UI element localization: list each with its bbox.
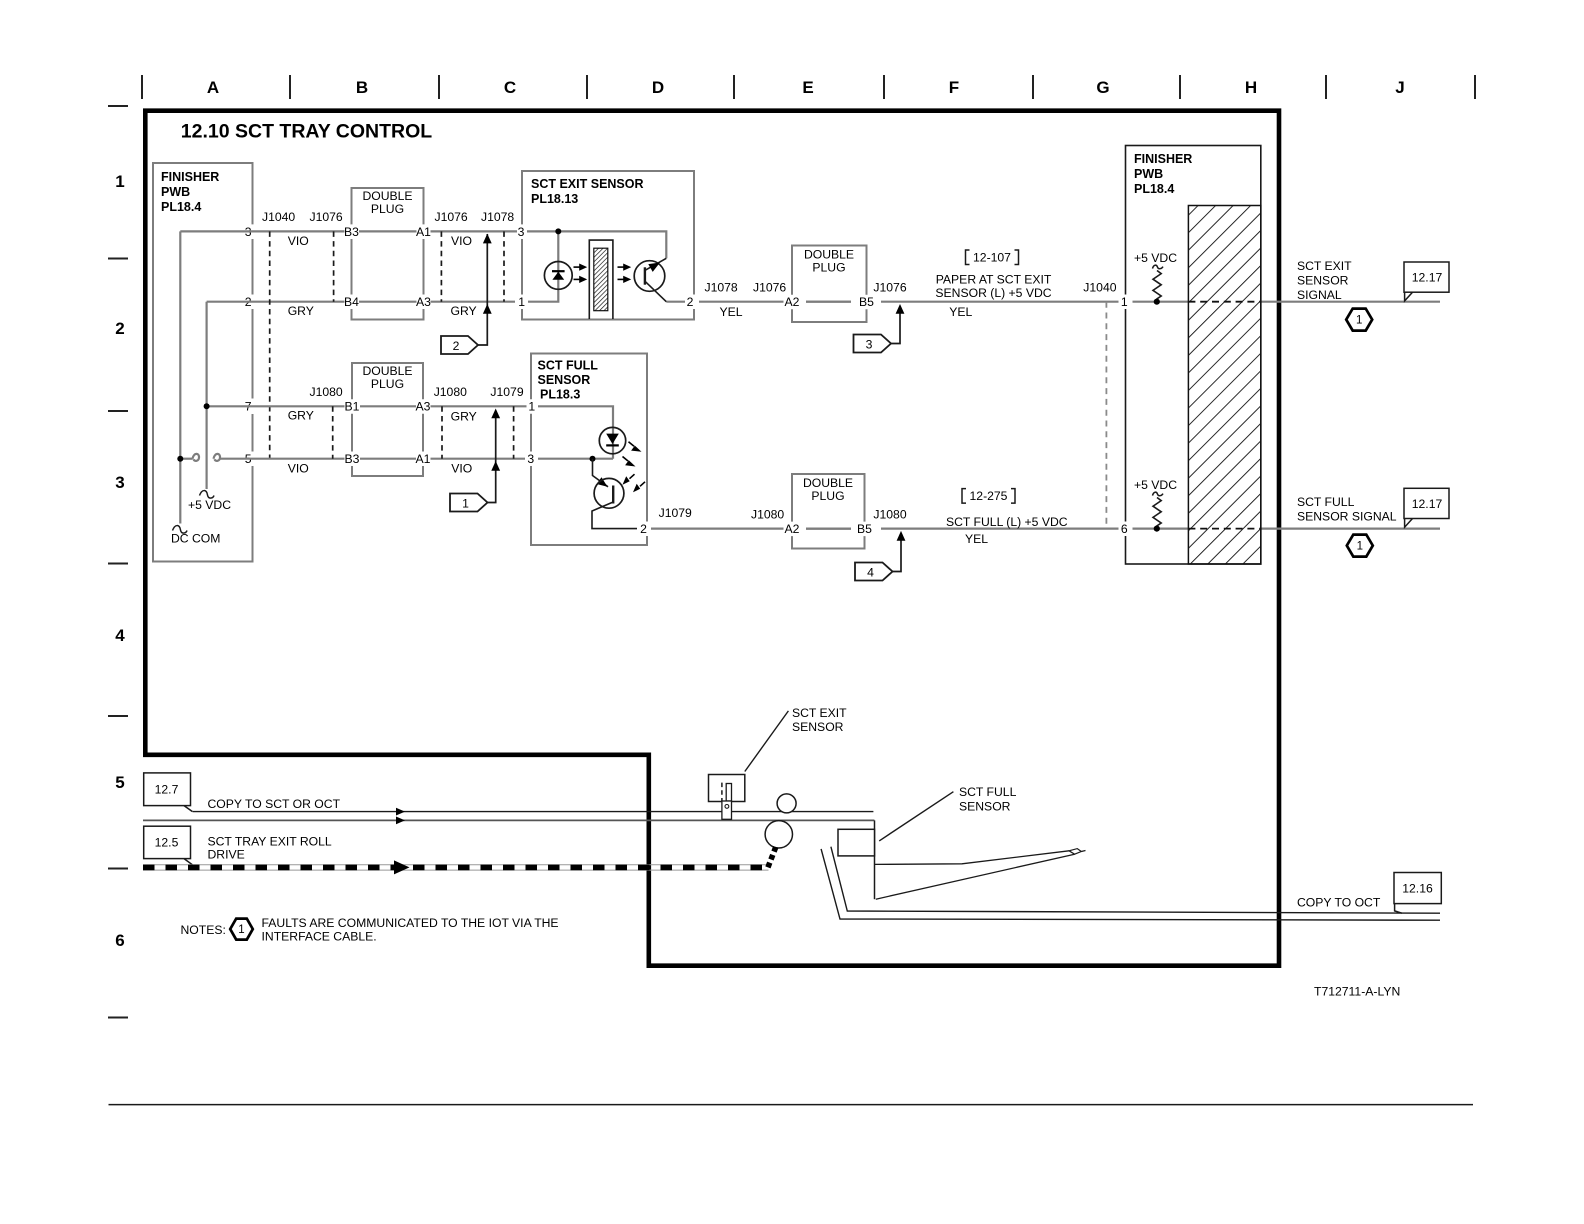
double plug box E exit — [792, 246, 867, 323]
svg-text:B3: B3 — [344, 225, 359, 239]
svg-text:NOTES:: NOTES: — [181, 923, 226, 937]
svg-text:SENSOR: SENSOR — [959, 799, 1011, 813]
resistor R pullup exit — [1153, 265, 1164, 269]
svg-text:H: H — [1245, 78, 1257, 97]
wire exit internal top — [527, 231, 685, 301]
sensor flag actuator — [589, 240, 613, 319]
svg-text:J1079: J1079 — [490, 385, 523, 399]
row ruler ticks — [108, 106, 128, 1018]
svg-text:B1: B1 — [345, 400, 360, 414]
connector J1040 right dashed line — [1105, 302, 1107, 529]
svg-text:12.17: 12.17 — [1412, 497, 1443, 511]
svg-text:A2: A2 — [785, 295, 800, 309]
finisher PWB right PL18.4 box — [1126, 146, 1261, 565]
flag 1 pointer — [450, 494, 488, 512]
footer rule — [109, 1104, 1474, 1106]
svg-text:DOUBLE: DOUBLE — [362, 189, 412, 203]
leader exit sensor — [745, 711, 789, 772]
svg-text:J1080: J1080 — [751, 508, 784, 522]
svg-text:VIO: VIO — [288, 234, 309, 248]
wire flag4 arrow — [893, 533, 902, 571]
svg-text:A3: A3 — [416, 400, 431, 414]
note hexagon 1 notes — [230, 919, 253, 940]
svg-text:B: B — [356, 78, 368, 97]
svg-text:1: 1 — [1357, 541, 1363, 553]
svg-text:J1076: J1076 — [435, 210, 468, 224]
svg-text:PLUG: PLUG — [371, 377, 404, 391]
svg-text:PL18.3: PL18.3 — [540, 388, 580, 402]
SCT exit sensor box PL18.13 — [522, 171, 694, 320]
pin 6 right box — [1119, 522, 1132, 537]
svg-text:DOUBLE: DOUBLE — [803, 476, 853, 490]
svg-text:1: 1 — [528, 400, 535, 414]
SCT full sensor signal label — [1297, 495, 1397, 524]
svg-text:J1076: J1076 — [310, 210, 343, 224]
svg-text:1: 1 — [238, 924, 244, 936]
svg-text:PL18.4: PL18.4 — [1134, 182, 1174, 196]
svg-text:DOUBLE: DOUBLE — [362, 364, 412, 378]
paper path line upper — [193, 811, 874, 813]
SCT full sensor box PL18.3 — [531, 354, 647, 546]
svg-text:+5 VDC: +5 VDC — [1134, 478, 1177, 492]
svg-text:J1078: J1078 — [705, 281, 738, 295]
svg-text:1: 1 — [1121, 295, 1128, 309]
phototransistor exit sensor — [634, 261, 665, 292]
svg-text:J1076: J1076 — [753, 281, 786, 295]
svg-text:12-275: 12-275 — [970, 489, 1008, 503]
double plug box 2 — [352, 363, 423, 476]
svg-text:B4: B4 — [344, 295, 359, 309]
finisher PWB left PL18.4 box — [153, 163, 253, 562]
svg-text:+5 VDC: +5 VDC — [1134, 251, 1177, 265]
note hexagon 1 exit — [1346, 309, 1372, 331]
hatched PWB area — [1188, 206, 1260, 565]
light arrows left pair — [574, 267, 581, 279]
connector J1078 dashed line — [503, 231, 505, 301]
leader full sensor — [879, 792, 953, 841]
svg-text:C: C — [504, 78, 516, 97]
svg-text:J1080: J1080 — [434, 385, 467, 399]
resistor R pullup full — [1153, 492, 1164, 496]
svg-text:6: 6 — [115, 931, 124, 950]
svg-text:B3: B3 — [345, 452, 360, 466]
wire net VIO row4 — [244, 458, 526, 460]
svg-text:SIGNAL: SIGNAL — [1297, 288, 1342, 302]
flag 4 pointer — [855, 563, 893, 581]
drive belt arrow — [394, 860, 410, 874]
svg-text:D: D — [652, 78, 664, 97]
svg-text:2: 2 — [640, 522, 647, 536]
svg-text:J1040: J1040 — [1083, 280, 1116, 294]
svg-text:GRY: GRY — [288, 304, 314, 318]
svg-text:12.10 SCT TRAY CONTROL: 12.10 SCT TRAY CONTROL — [181, 121, 432, 143]
svg-text:G: G — [1096, 78, 1109, 97]
svg-text:4: 4 — [867, 565, 874, 579]
wire full internal — [538, 406, 613, 458]
+5 VDC source squiggle — [200, 491, 215, 499]
junction node pin5/DCCOM — [177, 456, 183, 462]
svg-text:PLUG: PLUG — [811, 489, 844, 503]
paper stack wedge — [875, 851, 1070, 865]
svg-text:J1076: J1076 — [873, 281, 906, 295]
DC COM squiggle — [173, 526, 188, 534]
LED exit sensor — [544, 262, 572, 290]
wire internal DC COM vertical — [180, 231, 243, 523]
svg-text:DRIVE: DRIVE — [208, 848, 245, 862]
svg-text:INTERFACE CABLE.: INTERFACE CABLE. — [262, 930, 377, 944]
svg-text:J1080: J1080 — [873, 508, 906, 522]
svg-text:3: 3 — [518, 225, 525, 239]
svg-text:VIO: VIO — [451, 462, 472, 476]
connector J1076 dashed line left — [333, 231, 335, 301]
drive roller — [765, 821, 792, 848]
svg-text:PLUG: PLUG — [812, 261, 845, 275]
drive belt dashed line — [143, 864, 769, 866]
svg-text:A3: A3 — [416, 295, 431, 309]
svg-text:YEL: YEL — [965, 532, 988, 546]
light arrows in pair — [630, 474, 635, 479]
wire flag1 arrow — [488, 411, 496, 503]
flag 2 pointer — [441, 336, 478, 354]
svg-text:+5 VDC: +5 VDC — [188, 498, 231, 512]
wire flag3 arrow — [891, 306, 900, 343]
svg-text:SCT FULL: SCT FULL — [959, 785, 1017, 799]
wire flag2 arrow — [478, 234, 487, 345]
svg-text:SCT FULL: SCT FULL — [538, 359, 599, 373]
svg-text:2: 2 — [115, 319, 124, 338]
svg-text:SENSOR: SENSOR — [538, 373, 591, 387]
flag 3 pointer — [854, 335, 892, 353]
svg-text:PWB: PWB — [161, 185, 190, 199]
svg-text:3: 3 — [115, 473, 124, 492]
row numbers — [115, 172, 125, 950]
svg-text:1: 1 — [1356, 315, 1362, 327]
svg-text:FINISHER: FINISHER — [1134, 152, 1192, 166]
svg-text:B5: B5 — [857, 522, 872, 536]
svg-text:DOUBLE: DOUBLE — [804, 248, 854, 262]
svg-text:PAPER AT SCT EXIT: PAPER AT SCT EXIT — [936, 273, 1052, 287]
svg-text:3: 3 — [866, 337, 873, 351]
svg-text:4: 4 — [115, 626, 125, 645]
svg-text:12.5: 12.5 — [155, 836, 179, 850]
svg-text:VIO: VIO — [451, 234, 472, 248]
svg-text:12.16: 12.16 — [1402, 882, 1433, 896]
svg-text:SCT TRAY EXIT ROLL: SCT TRAY EXIT ROLL — [208, 835, 332, 849]
wire net VIO row1 — [244, 230, 518, 232]
wire internal +5V vertical — [207, 302, 244, 489]
svg-text:B5: B5 — [859, 295, 874, 309]
svg-text:6: 6 — [1121, 522, 1128, 536]
svg-text:12-107: 12-107 — [973, 250, 1011, 264]
wire pin5 with break hooks — [180, 454, 243, 461]
pointer box 12.17 full — [1404, 488, 1449, 518]
svg-text:PL18.13: PL18.13 — [531, 192, 578, 206]
SCT exit sensor callout — [709, 775, 745, 802]
svg-text:SCT FULL (L) +5 VDC: SCT FULL (L) +5 VDC — [946, 515, 1068, 529]
pointer box 12.16 — [1394, 873, 1441, 904]
svg-text:COPY TO OCT: COPY TO OCT — [1297, 896, 1381, 910]
note hexagon 1 full — [1347, 535, 1373, 557]
svg-text:3: 3 — [527, 452, 534, 466]
light arrows out pair — [629, 442, 635, 447]
column letters — [207, 78, 1405, 97]
light arrows right pair — [618, 267, 625, 279]
pointer box 12.5 — [144, 826, 191, 858]
node exit junction — [555, 228, 561, 234]
pointer box 12.7 — [144, 773, 191, 806]
svg-text:SENSOR: SENSOR — [792, 720, 844, 734]
svg-text:5: 5 — [115, 773, 124, 792]
svg-text:J: J — [1395, 78, 1404, 97]
svg-text:YEL: YEL — [949, 305, 972, 319]
wire net exit output row2 right — [699, 301, 1440, 303]
svg-text:VIO: VIO — [288, 461, 309, 475]
column ruler ticks — [142, 75, 1475, 99]
wire inside DP-E full — [806, 527, 851, 529]
wire net GRY row3 — [244, 405, 527, 407]
wire inside DP-E — [806, 301, 851, 303]
svg-text:DC COM: DC COM — [171, 532, 220, 546]
svg-text:2: 2 — [687, 295, 694, 309]
svg-text:J1078: J1078 — [481, 210, 514, 224]
svg-text:SCT FULL: SCT FULL — [1297, 495, 1355, 509]
svg-text:FAULTS ARE COMMUNICATED TO THE: FAULTS ARE COMMUNICATED TO THE IOT VIA T… — [262, 916, 559, 930]
svg-text:J1079: J1079 — [659, 506, 692, 520]
svg-text:12.7: 12.7 — [155, 783, 179, 797]
pointer box 12.17 exit — [1404, 262, 1449, 292]
svg-text:PLUG: PLUG — [371, 202, 404, 216]
connector J1040 dashed line — [269, 231, 271, 458]
wire net full output row5 — [651, 527, 1440, 529]
svg-text:SENSOR: SENSOR — [1297, 274, 1349, 288]
connector J1080 dashed line left — [332, 406, 334, 458]
svg-text:PL18.4: PL18.4 — [161, 200, 201, 214]
svg-text:COPY TO SCT OR OCT: COPY TO SCT OR OCT — [208, 797, 341, 811]
svg-text:SCT EXIT: SCT EXIT — [1297, 259, 1352, 273]
svg-text:YEL: YEL — [720, 305, 743, 319]
svg-text:GRY: GRY — [288, 409, 314, 423]
drive link striped — [767, 847, 776, 869]
svg-text:SCT EXIT: SCT EXIT — [792, 706, 847, 720]
svg-text:E: E — [802, 78, 813, 97]
svg-text:GRY: GRY — [451, 410, 477, 424]
svg-text:J1080: J1080 — [310, 385, 343, 399]
junction node pin7/+5V — [204, 403, 210, 409]
double plug box 1 — [352, 188, 424, 320]
svg-text:1: 1 — [518, 295, 525, 309]
connector J1079 dashed line — [513, 406, 515, 458]
svg-text:A1: A1 — [416, 225, 431, 239]
status code 12-275 — [962, 489, 1015, 504]
svg-text:1: 1 — [115, 172, 124, 191]
connector J1080 dashed line right — [441, 406, 443, 458]
pin 1 right box — [1119, 295, 1132, 310]
svg-text:SCT EXIT SENSOR: SCT EXIT SENSOR — [531, 177, 644, 191]
pinch roller — [777, 794, 796, 813]
SCT exit sensor signal label — [1297, 259, 1352, 302]
svg-text:1: 1 — [462, 496, 469, 510]
svg-text:J1040: J1040 — [262, 210, 295, 224]
svg-text:2: 2 — [453, 339, 460, 353]
connector J1076 dashed line right — [440, 231, 442, 301]
svg-text:12.17: 12.17 — [1412, 271, 1443, 285]
wire net GRY row2 — [244, 301, 516, 303]
double plug box E full — [792, 474, 865, 549]
svg-text:PWB: PWB — [1134, 167, 1163, 181]
paper path arrows — [396, 808, 405, 816]
node full junction — [590, 456, 596, 462]
svg-text:A: A — [207, 78, 219, 97]
wire junction to phototransistor — [593, 459, 609, 487]
svg-text:FINISHER: FINISHER — [161, 170, 219, 184]
svg-text:T712711-A-LYN: T712711-A-LYN — [1314, 984, 1400, 998]
svg-text:F: F — [949, 78, 959, 97]
svg-text:GRY: GRY — [451, 304, 477, 318]
LED full sensor — [599, 427, 625, 453]
tray wall — [831, 847, 1440, 914]
SCT full sensor callout — [874, 820, 876, 899]
svg-text:A2: A2 — [785, 522, 800, 536]
paper path line lower — [143, 819, 874, 821]
status code 12-107 — [966, 250, 1019, 265]
svg-text:A1: A1 — [416, 452, 431, 466]
svg-text:SENSOR (L) +5 VDC: SENSOR (L) +5 VDC — [935, 286, 1051, 300]
svg-text:SENSOR SIGNAL: SENSOR SIGNAL — [1297, 510, 1397, 524]
phototransistor full sensor — [594, 478, 624, 508]
